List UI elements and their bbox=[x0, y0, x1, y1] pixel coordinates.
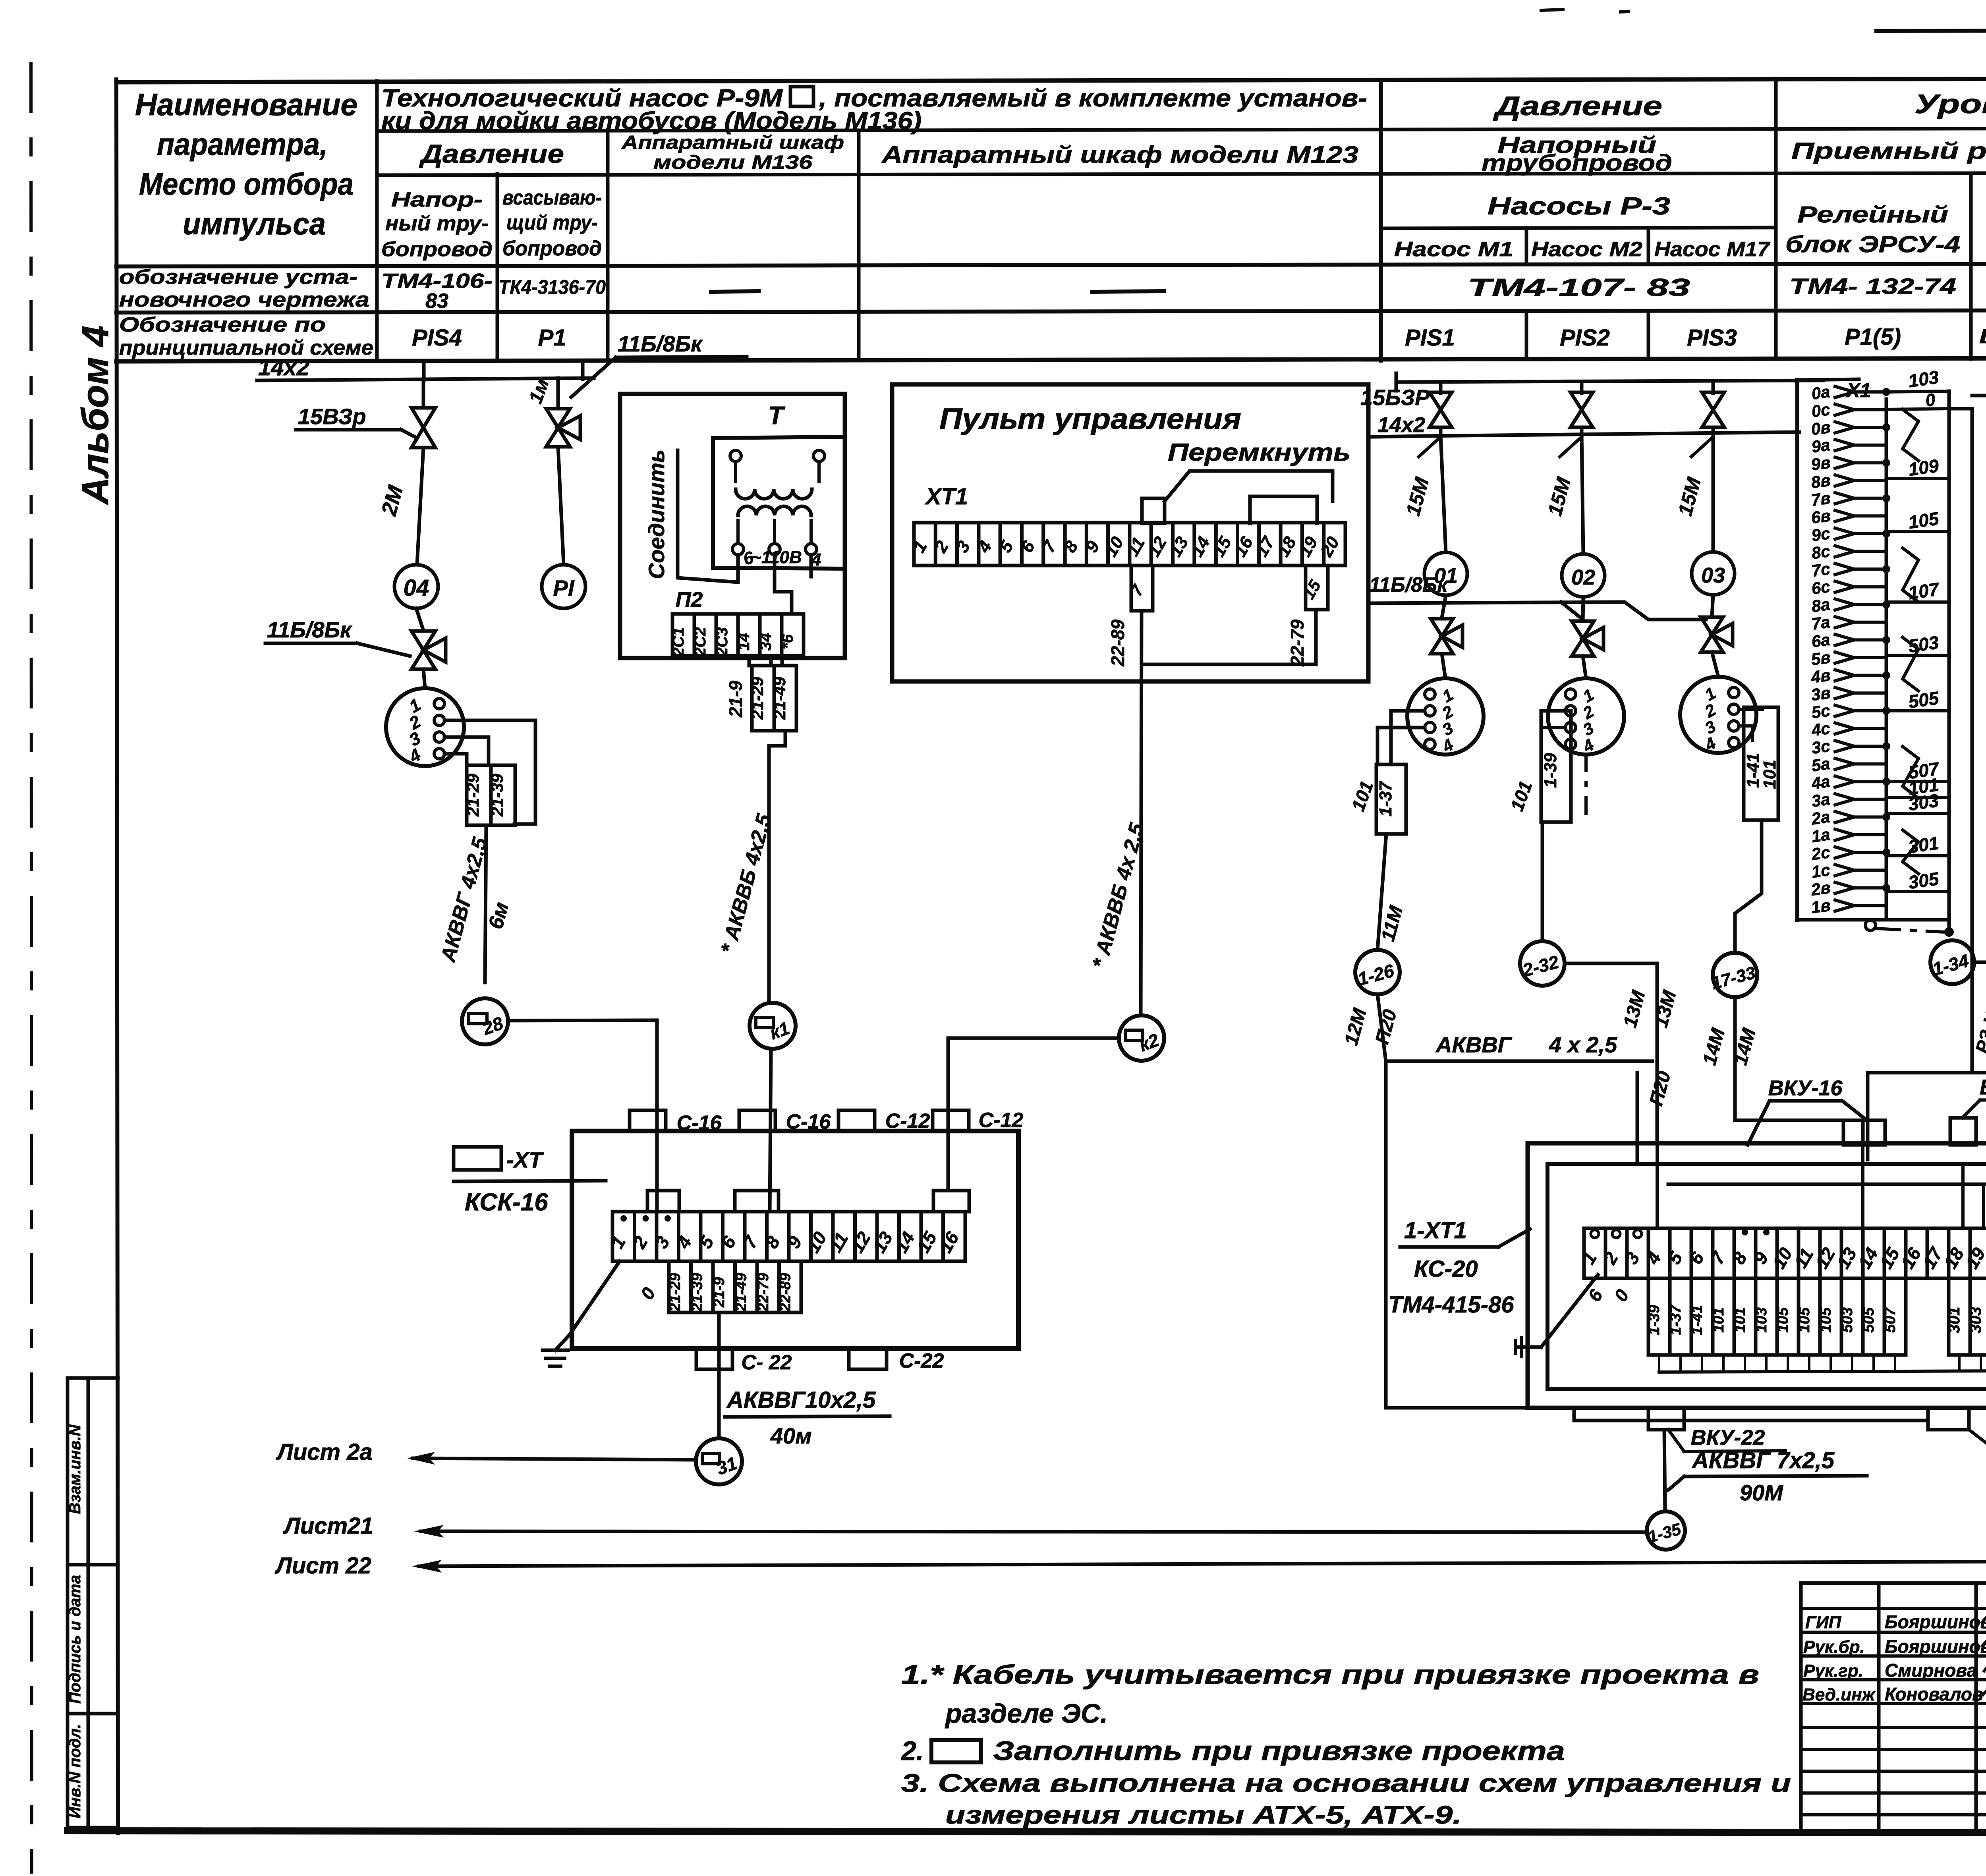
svg-text:21-49: 21-49 bbox=[770, 677, 789, 720]
svg-text:ХТ1: ХТ1 bbox=[925, 484, 968, 510]
X1 outgoing wire 301 bbox=[1886, 854, 1949, 857]
svg-text:3: 3 bbox=[651, 1233, 674, 1252]
svg-text:1: 1 bbox=[1578, 1249, 1601, 1268]
svg-text:2.: 2. bbox=[900, 1736, 924, 1766]
svg-text:АКВВГ: АКВВГ bbox=[1435, 1032, 1513, 1057]
cable marker circle К1 bbox=[750, 1003, 796, 1049]
svg-text:С- 22: С- 22 bbox=[741, 1351, 792, 1374]
terminal 11 extension cell 7 bbox=[1131, 566, 1153, 611]
lower cells 301 303 305 bbox=[1949, 1278, 1970, 1355]
gland ВКУ-12 right tab bbox=[1950, 1118, 1976, 1145]
svg-text:15М: 15М bbox=[1402, 475, 1433, 518]
transformer primary winding bbox=[730, 450, 741, 461]
gland ВКУ-22 bottom left tab bbox=[1648, 1408, 1684, 1430]
svg-text:109: 109 bbox=[1907, 455, 1940, 480]
transformer secondary winding bbox=[738, 506, 811, 515]
junction box КСК-16 outline bbox=[572, 1131, 1018, 1349]
svg-text:8: 8 bbox=[1728, 1249, 1751, 1268]
svg-text:7: 7 bbox=[739, 1232, 762, 1252]
svg-text:бопровод: бопровод bbox=[502, 237, 602, 260]
svg-text:Насосы Р-3: Насосы Р-3 bbox=[1488, 193, 1670, 220]
svg-text:503: 503 bbox=[1839, 1307, 1856, 1332]
wire circle02 to valve bbox=[1583, 597, 1583, 620]
dash value M136 row4 bbox=[711, 291, 759, 292]
valve V4 on line 15БЗР bbox=[1439, 382, 1443, 393]
instrument circle 02 bbox=[1562, 554, 1605, 597]
svg-text:Р1: Р1 bbox=[538, 325, 566, 351]
svg-text:3: 3 bbox=[1580, 718, 1597, 739]
wire label box 1-39 bbox=[1541, 711, 1571, 822]
svg-text:параметра,: параметра, bbox=[157, 127, 328, 162]
internal stub above cell 3 bbox=[647, 1191, 679, 1212]
svg-text:3: 3 bbox=[1621, 1249, 1644, 1268]
strip pins 8-9 dots bbox=[1742, 1229, 1748, 1235]
svg-text:Лист 22: Лист 22 bbox=[274, 1553, 371, 1579]
X1 outgoing wire 305 bbox=[1886, 890, 1949, 893]
cable gland С-16 #2 bbox=[739, 1110, 775, 1131]
drop to cell 13 bbox=[1861, 1145, 1864, 1228]
wire label box 1-41 bbox=[1744, 707, 1778, 820]
svg-text:PIS2: PIS2 bbox=[1560, 325, 1610, 351]
svg-text:КС-20: КС-20 bbox=[1414, 1256, 1478, 1282]
svg-text:Перемкнуть: Перемкнуть bbox=[1168, 439, 1350, 466]
svg-text:101: 101 bbox=[1732, 1307, 1748, 1332]
wire 14М down from 1-41 to marker 17-33 bbox=[1735, 820, 1762, 953]
wire down to PI gauge bbox=[558, 447, 564, 564]
svg-text:7: 7 bbox=[1706, 1248, 1730, 1268]
gland ВКУ-16 tab bbox=[1843, 1120, 1885, 1145]
wire from 1-34 right to riser bbox=[1974, 961, 1986, 964]
svg-text:105: 105 bbox=[1907, 508, 1941, 533]
svg-text:Приемный резервуар В-1: Приемный резервуар В-1 bbox=[1791, 138, 1986, 164]
svg-text:Подпись и дата: Подпись и дата bbox=[66, 1575, 84, 1704]
svg-text:16: 16 bbox=[935, 1228, 963, 1256]
dashed pin4 wire col2 bbox=[1584, 755, 1588, 822]
svg-text:02: 02 bbox=[1571, 566, 1595, 589]
svg-text:2: 2 bbox=[628, 1233, 652, 1252]
wire from pin4 bbox=[444, 754, 467, 765]
svg-text:21-29: 21-29 bbox=[748, 677, 767, 720]
svg-text:4: 4 bbox=[1642, 1249, 1665, 1268]
svg-text:1-34: 1-34 bbox=[1930, 950, 1971, 980]
wire tap to table col PIS4 bbox=[422, 363, 426, 380]
svg-text:14М: 14М bbox=[1699, 1026, 1729, 1067]
svg-text:~110В: ~110В bbox=[751, 548, 802, 567]
wire 15М col3 bbox=[1712, 433, 1715, 552]
svg-text:16: 16 bbox=[1230, 533, 1257, 560]
wire riser РЗ-Ч-Х-Щ-20 bbox=[1868, 917, 1986, 1160]
wire П20 from 1-26 down along left bbox=[1386, 1061, 1928, 1421]
svg-text:21-49: 21-49 bbox=[733, 1273, 750, 1312]
svg-text:6: 6 bbox=[717, 1233, 740, 1252]
instrument circle 01 bbox=[1424, 552, 1467, 595]
svg-text:3: 3 bbox=[1439, 718, 1457, 739]
svg-text:19: 19 bbox=[1961, 1244, 1986, 1272]
cable marker circle 1-34 bbox=[1930, 940, 1974, 984]
wire below 17-33 into block bbox=[1735, 997, 1863, 1145]
svg-text:505: 505 bbox=[1860, 1307, 1877, 1332]
terminal pins 1-3 bbox=[620, 1215, 627, 1222]
svg-text:103: 103 bbox=[1753, 1307, 1770, 1332]
svg-text:0: 0 bbox=[636, 1284, 659, 1303]
valve V3 (PI column three-way) bbox=[556, 378, 560, 408]
svg-text:Лист 2а: Лист 2а bbox=[276, 1439, 373, 1465]
jog col2 bbox=[1561, 602, 1583, 620]
lower wire-label cells bbox=[669, 1261, 691, 1312]
svg-text:1-41: 1-41 bbox=[1689, 1305, 1706, 1335]
svg-text:5: 5 bbox=[1663, 1248, 1687, 1268]
internal lower bus of relay unit bbox=[1659, 1371, 1986, 1372]
three-way valve V8 col2 bbox=[1572, 621, 1594, 656]
svg-text:С-12: С-12 bbox=[885, 1110, 930, 1133]
svg-text:Уровень: Уровень bbox=[1915, 89, 1986, 119]
terminal X1 bus line bbox=[1885, 399, 1888, 920]
svg-text:-ХТ: -ХТ bbox=[506, 1147, 544, 1172]
wires below П2 cells 14/34 bbox=[748, 656, 751, 666]
svg-text:Смирнова: Смирнова bbox=[1885, 1660, 1977, 1681]
svg-text:90М: 90М bbox=[1740, 1480, 1783, 1505]
svg-text:щий тру-: щий тру- bbox=[506, 211, 598, 234]
junction node above 1-34 bbox=[1944, 927, 1954, 937]
wire 15М col2 bbox=[1582, 434, 1583, 554]
svg-text:5: 5 bbox=[695, 1232, 718, 1252]
svg-text:1в: 1в bbox=[1810, 896, 1832, 917]
svg-text:1-37: 1-37 bbox=[1667, 1304, 1684, 1335]
svg-text:П20: П20 bbox=[1372, 1007, 1401, 1046]
wire label box 21-39 bbox=[491, 765, 515, 825]
svg-text:9: 9 bbox=[1749, 1249, 1772, 1268]
svg-text:2С1: 2С1 bbox=[670, 627, 687, 656]
svg-text:PIS4: PIS4 bbox=[412, 325, 462, 351]
cable gland С-22 #1 bbox=[696, 1349, 732, 1369]
svg-text:Взам.инв.N: Взам.инв.N bbox=[66, 1424, 84, 1514]
wire from X1 0-line to block bbox=[1949, 409, 1972, 1073]
secondary terminals 6 ~110В 4 bbox=[732, 544, 744, 555]
svg-text:21-29: 21-29 bbox=[667, 1273, 684, 1312]
svg-text:С-16: С-16 bbox=[677, 1112, 722, 1135]
svg-text:13М: 13М bbox=[1650, 988, 1681, 1030]
svg-text:ки для мойки автобусов (Модель: ки для мойки автобусов (Модель М136) bbox=[381, 107, 922, 135]
svg-text:21-29: 21-29 bbox=[464, 774, 482, 817]
svg-text:305: 305 bbox=[1907, 868, 1941, 893]
wires from Ш2 pins to box 1-37 bbox=[1391, 711, 1425, 764]
svg-text:1: 1 bbox=[607, 1233, 630, 1252]
svg-text:принципиальной схеме: принципиальной схеме bbox=[119, 336, 373, 359]
svg-text:21-9: 21-9 bbox=[725, 681, 746, 718]
svg-text:Наименование: Наименование bbox=[135, 87, 357, 122]
wire circle03 to valve bbox=[1712, 595, 1713, 616]
instrument circle 03 bbox=[1692, 552, 1735, 595]
svg-text:ВКУ-22: ВКУ-22 bbox=[1691, 1426, 1765, 1449]
wire circle01 to valve bbox=[1442, 595, 1446, 618]
svg-text:103: 103 bbox=[1907, 367, 1940, 391]
three-way valve V9 col3 bbox=[1701, 617, 1723, 652]
wire label box 21-49 (П2) bbox=[774, 666, 796, 731]
svg-text:9: 9 bbox=[783, 1233, 806, 1252]
X1 outgoing wire 503 bbox=[1886, 654, 1949, 657]
svg-text:303: 303 bbox=[1967, 1307, 1984, 1334]
wire from К2 to box КСК-16 bbox=[948, 1038, 1119, 1191]
svg-text:ТМ4-107- 83: ТМ4-107- 83 bbox=[1468, 274, 1690, 301]
svg-text:14: 14 bbox=[735, 633, 753, 651]
lower wire-label cells (1-ХТ1) bbox=[1648, 1278, 1670, 1355]
cable marker circle 2-32 bbox=[1520, 941, 1565, 986]
apparatus cabinet box with transformer T bbox=[620, 394, 845, 658]
wire from Соединить bracket bbox=[678, 450, 738, 582]
svg-text:АКВВГ 7х2,5: АКВВГ 7х2,5 bbox=[1691, 1448, 1835, 1473]
svg-text:3. Схема выполнена на основа: 3. Схема выполнена на основании схем упр… bbox=[901, 1769, 1791, 1797]
wire secondary terminal 4 jog bbox=[809, 555, 813, 577]
svg-text:15: 15 bbox=[1209, 533, 1235, 560]
cable marker circle 17-33 bbox=[1713, 953, 1757, 997]
wire 22-89 down from terminal 11 bbox=[1141, 611, 1142, 1015]
svg-text:301: 301 bbox=[1945, 1307, 1963, 1334]
svg-text:11: 11 bbox=[825, 1229, 852, 1255]
svg-text:LE1/LE2/LE3(5а): LE1/LE2/LE3(5а) bbox=[1979, 325, 1986, 347]
svg-text:к1: к1 bbox=[767, 1017, 792, 1044]
svg-text:83: 83 bbox=[425, 290, 448, 313]
slope mark at V6 bbox=[1691, 437, 1713, 457]
internal bus wire 301/303/305 bbox=[1636, 1073, 1639, 1164]
svg-text:PIS3: PIS3 bbox=[1687, 325, 1737, 351]
svg-text:Вед.инж: Вед.инж bbox=[1802, 1685, 1876, 1704]
svg-text:Бояршинов: Бояршинов bbox=[1885, 1612, 1986, 1632]
svg-text:1м: 1м bbox=[525, 376, 553, 406]
svg-text:ГИП: ГИП bbox=[1805, 1613, 1842, 1632]
cable marker circle 1-35 bbox=[1647, 1511, 1685, 1550]
wire tap right bbox=[581, 365, 585, 379]
transformer T inner box bbox=[713, 437, 845, 569]
svg-text:505: 505 bbox=[1907, 687, 1941, 712]
svg-text:4 х 2,5: 4 х 2,5 bbox=[1549, 1032, 1617, 1057]
svg-text:П2: П2 bbox=[676, 588, 703, 612]
svg-text:2-32: 2-32 bbox=[1520, 951, 1561, 980]
svg-text:1-37: 1-37 bbox=[1376, 780, 1395, 816]
svg-text:21-39: 21-39 bbox=[488, 774, 506, 817]
wire from К1 into box КСК-16 bbox=[770, 1049, 771, 1212]
wire label box 21-29 bbox=[467, 765, 491, 825]
svg-text:101: 101 bbox=[1506, 778, 1536, 814]
svg-text:22-89: 22-89 bbox=[1107, 620, 1128, 667]
wire from 2-32 right and down bbox=[1565, 963, 1657, 1143]
screen drain contact circle bbox=[1865, 920, 1876, 930]
legend rectangle -ХТ bbox=[454, 1147, 501, 1170]
sheet frame: left dashed margin line bbox=[31, 64, 32, 1872]
X1 outgoing wire 105 bbox=[1886, 530, 1949, 533]
svg-text:PIS1: PIS1 bbox=[1405, 325, 1455, 351]
wire 12М П20 down from 1-26 bbox=[1377, 994, 1386, 1061]
svg-text:Рук.гр.: Рук.гр. bbox=[1803, 1661, 1863, 1681]
svg-text:10: 10 bbox=[1101, 533, 1128, 560]
wire АКВВГ horizontal bbox=[1386, 1060, 1652, 1063]
terminal strip 1-ХТ1 (20 cells) bbox=[1584, 1228, 1605, 1278]
svg-text:PI: PI bbox=[553, 575, 575, 600]
ground symbol bbox=[555, 1335, 570, 1350]
svg-text:Насос М17: Насос М17 bbox=[1654, 238, 1770, 261]
svg-text:Релейный: Релейный bbox=[1797, 202, 1948, 228]
svg-text:импульса: импульса bbox=[183, 206, 326, 241]
terminal block X1 outline bbox=[1795, 380, 1799, 920]
svg-text:разделе ЭС.: разделе ЭС. bbox=[945, 1698, 1108, 1729]
cable marker circle 1-26 bbox=[1355, 950, 1400, 994]
svg-text:Напор-: Напор- bbox=[391, 188, 483, 211]
manifold line 11Б/8Бк bbox=[1368, 602, 1706, 620]
jumper wire over terminals 12-19 bbox=[1142, 498, 1165, 523]
slope mark at V5 bbox=[1560, 437, 1582, 457]
svg-text:19: 19 bbox=[1295, 533, 1321, 560]
X1 outgoing wire 103 bbox=[1886, 391, 1949, 392]
cable АКВВГ10х2,5 40м bbox=[717, 1312, 721, 1438]
wires from Ш3 pins to box 1-39 bbox=[1556, 709, 1565, 713]
svg-text:15ВЗр: 15ВЗр bbox=[298, 404, 366, 429]
wire 1-25 to bus bbox=[1972, 396, 1986, 457]
cable marker circle 31 bbox=[696, 1438, 742, 1484]
svg-text:Насос М2: Насос М2 bbox=[1531, 238, 1642, 261]
svg-text:Соединить: Соединить bbox=[644, 450, 669, 579]
internal drops to cells 18 19 20 bbox=[1961, 1164, 1965, 1228]
svg-text:1-39: 1-39 bbox=[1646, 1305, 1663, 1335]
svg-text:17: 17 bbox=[1252, 533, 1279, 560]
valve V6 on line 15БЗР bbox=[1712, 382, 1715, 393]
wire secondary terminal 1 down bbox=[736, 555, 740, 582]
svg-text:1-35: 1-35 bbox=[1646, 1519, 1683, 1546]
wire from box bottom to 1-35 bbox=[1664, 1430, 1665, 1511]
X1 outgoing wire 101 bbox=[1886, 796, 1949, 799]
svg-text:Бояршинов: Бояршинов bbox=[1885, 1636, 1986, 1657]
svg-text:1-ХТ1: 1-ХТ1 bbox=[1404, 1218, 1467, 1243]
wire from pin3 bbox=[444, 737, 489, 765]
relay unit outer box bbox=[1528, 1143, 1986, 1408]
svg-text:8: 8 bbox=[761, 1233, 784, 1252]
connector Ш3 col2 (4-pin) bbox=[1548, 678, 1624, 755]
cable *АКВВБ 4х2,5 down to marker К1 bbox=[769, 731, 785, 1002]
svg-text:20: 20 bbox=[1316, 533, 1343, 560]
svg-text:С-16: С-16 bbox=[786, 1110, 831, 1133]
three-way valve V2 (11Б/8Бк) bbox=[416, 608, 423, 631]
three-way valve V7 col1 bbox=[1431, 619, 1453, 654]
wire to connector Ш1 bbox=[423, 669, 425, 688]
svg-text:обозначение уста-: обозначение уста- bbox=[119, 266, 357, 289]
svg-text:507: 507 bbox=[1882, 1307, 1899, 1332]
ground wire diagonal bbox=[570, 1261, 620, 1335]
X1 outgoing wire 109 bbox=[1886, 477, 1949, 480]
slope mark at V4 bbox=[1419, 437, 1441, 457]
svg-text:1.* Кабель учитывается при: 1.* Кабель учитывается при привязке прое… bbox=[901, 1660, 1759, 1690]
svg-text:трубопровод: трубопровод bbox=[1482, 150, 1672, 176]
connector Ш2 col1 (4-pin) bbox=[1407, 678, 1484, 755]
pressure gauge PI bbox=[542, 565, 585, 608]
wire from marker 28 to box КСК-16 bbox=[508, 1020, 657, 1212]
sheet frame: left border bbox=[116, 79, 118, 1833]
svg-text:22-89: 22-89 bbox=[777, 1273, 794, 1312]
svg-text:11Б/8Бк: 11Б/8Бк bbox=[267, 617, 352, 642]
svg-text:21-39: 21-39 bbox=[689, 1273, 706, 1312]
svg-text:*6: *6 bbox=[779, 634, 796, 649]
X1 outgoing wire 0 bbox=[1886, 409, 1949, 409]
svg-text:1: 1 bbox=[1580, 685, 1597, 706]
svg-text:2С3: 2С3 bbox=[713, 627, 731, 656]
instrument circle 04 bbox=[394, 565, 438, 608]
cable gland С-22 #2 bbox=[849, 1349, 887, 1369]
svg-text:С-22: С-22 bbox=[899, 1349, 944, 1372]
cable gland С-16 #1 bbox=[630, 1110, 666, 1131]
svg-text:АКВВГ10х2,5: АКВВГ10х2,5 bbox=[726, 1387, 876, 1413]
wire from pin2 bbox=[444, 720, 535, 824]
wire valve to connector col2 bbox=[1583, 656, 1586, 678]
svg-text:13: 13 bbox=[1166, 533, 1192, 560]
svg-text:105: 105 bbox=[1796, 1307, 1813, 1332]
svg-text:14: 14 bbox=[1187, 533, 1214, 560]
internal stub above cells 13-14 bbox=[933, 1191, 969, 1212]
svg-text:Лист21: Лист21 bbox=[283, 1513, 373, 1539]
svg-text:Заполнить при привязке прое: Заполнить при привязке проекта bbox=[993, 1736, 1565, 1766]
wire 22-79 from terminal 15 bbox=[1142, 610, 1316, 664]
svg-text:13М: 13М bbox=[1619, 988, 1650, 1030]
svg-text:0: 0 bbox=[1610, 1286, 1633, 1305]
svg-text:1: 1 bbox=[1702, 683, 1719, 704]
svg-text:Давление: Давление bbox=[1493, 91, 1662, 121]
svg-text:12: 12 bbox=[1144, 533, 1171, 560]
svg-text:КСК-16: КСК-16 bbox=[465, 1189, 548, 1216]
svg-text:04: 04 bbox=[404, 575, 429, 601]
svg-text:105: 105 bbox=[1775, 1307, 1791, 1332]
svg-text:* АКВВБ 4х2,5: * АКВВБ 4х2,5 bbox=[717, 811, 776, 956]
svg-text:40м: 40м bbox=[770, 1423, 812, 1448]
X1 group jumper diagonals bbox=[1903, 409, 1918, 461]
svg-text:1-26: 1-26 bbox=[1356, 960, 1397, 989]
wire valve to connector col3 bbox=[1712, 652, 1718, 677]
X1 outgoing wire 507 bbox=[1886, 780, 1949, 783]
svg-text:11Б/8Бк: 11Б/8Бк bbox=[1369, 573, 1449, 596]
svg-text:Место отбора: Место отбора bbox=[139, 166, 354, 201]
svg-text:Пульт управления: Пульт управления bbox=[939, 402, 1241, 435]
svg-text:Р1(5): Р1(5) bbox=[1845, 324, 1901, 350]
svg-text:Т: Т bbox=[768, 401, 785, 430]
ground wire diagonal (ЭРСУ) bbox=[1541, 1275, 1598, 1347]
control desk box Пульт управления bbox=[892, 384, 1368, 681]
wire 15М col1 bbox=[1441, 436, 1446, 552]
svg-text:14х2: 14х2 bbox=[1377, 413, 1425, 437]
sheet frame: bottom border bbox=[68, 1831, 1986, 1833]
svg-text:Обозначение по: Обозначение по bbox=[119, 313, 326, 336]
svg-text:ТК4-3136-70: ТК4-3136-70 bbox=[498, 276, 606, 298]
svg-text:Альбом 4: Альбом 4 bbox=[74, 326, 116, 505]
svg-text:ВКУ- 12: ВКУ- 12 bbox=[1980, 1075, 1986, 1099]
svg-text:2М: 2М bbox=[377, 483, 408, 518]
svg-text:ВКУ-16: ВКУ-16 bbox=[1768, 1076, 1843, 1100]
svg-text:11Б/8Бк: 11Б/8Бк bbox=[618, 331, 703, 356]
strip pins 1-3 bbox=[1591, 1230, 1599, 1238]
left stamp column boxes bbox=[66, 1378, 70, 1828]
drop from 2-32 wire to cell 4 bbox=[1656, 1143, 1659, 1228]
cable gland С-12 #1 bbox=[838, 1110, 875, 1131]
svg-text:бопровод: бопровод bbox=[381, 238, 493, 261]
svg-text:Аппаратный шкаф модели М123: Аппаратный шкаф модели М123 bbox=[881, 141, 1358, 168]
svg-text:Коновалов: Коновалов bbox=[1885, 1684, 1983, 1704]
svg-text:П20: П20 bbox=[1646, 1069, 1675, 1108]
wire down to marker 2-32 bbox=[1541, 822, 1544, 941]
svg-text:всасываю-: всасываю- bbox=[502, 186, 602, 209]
svg-text:Аппаратный шкаф: Аппаратный шкаф bbox=[621, 132, 844, 153]
svg-text:Рук.бр.: Рук.бр. bbox=[1803, 1637, 1865, 1657]
valve V1 (15ВЗр) on 04 column bbox=[422, 380, 425, 408]
svg-text:измерения листы АТХ-5, АТХ-: измерения листы АТХ-5, АТХ-9. bbox=[945, 1801, 1462, 1829]
svg-text:6: 6 bbox=[1685, 1249, 1708, 1268]
terminal strip КСК (16 cells) bbox=[612, 1212, 635, 1261]
X1 outgoing wire 505 bbox=[1886, 709, 1949, 712]
svg-text:34: 34 bbox=[757, 633, 775, 651]
svg-text:105: 105 bbox=[1818, 1307, 1834, 1332]
